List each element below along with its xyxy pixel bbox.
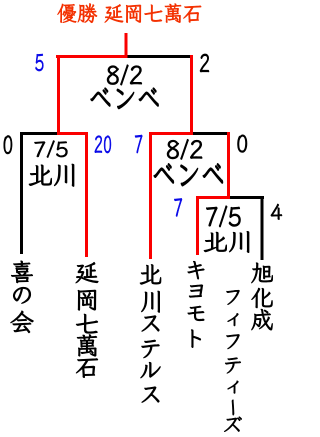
score: final left '5' (blue): [35, 54, 43, 71]
score: right semifinal left '7' (blue): [135, 135, 142, 153]
label: right semifinal date '8/2': [167, 139, 202, 159]
wire: champion riser from title to final (red): [125, 33, 128, 58]
wire: final right team vertical (red): [190, 55, 193, 135]
wire: quarterfinal horizontal left part (red): [196, 196, 230, 199]
team name: 旭化成 (first column): [251, 263, 272, 330]
label: final date '8/2': [107, 65, 142, 85]
wire: right semifinal horizontal left part (red): [149, 132, 193, 135]
label: quarterfinal date '7/5': [206, 206, 240, 227]
team name: 北川ステルス: [140, 264, 161, 402]
wire: quarterfinal right vertical to Asahi-Kasei Fifties (black): [261, 196, 264, 260]
wire: quarterfinal left vertical to Kiyomoto (red): [196, 196, 199, 255]
wire: right semifinal horizontal right part (black): [193, 132, 230, 135]
wire: right semifinal left vertical to Kitagawa Stealth (red): [149, 132, 152, 259]
label: champion title '優勝': [58, 4, 98, 23]
wire: left semifinal horizontal left part (black): [20, 132, 60, 135]
score: right semifinal right '0' (black): [238, 135, 248, 153]
score: final right '2' (black): [200, 54, 209, 72]
label: left semifinal venue '北川': [29, 164, 74, 187]
wire: final left team vertical (red): [57, 55, 60, 135]
score: quarterfinal left '7' (blue): [174, 198, 182, 216]
team name: フィフティーズ (second column): [224, 290, 242, 432]
team name: キヨモト: [188, 261, 205, 348]
label: final venue 'ベンベ': [91, 88, 159, 109]
wire: left semifinal left vertical to Ki-no-kai (black): [20, 132, 23, 254]
team name: 延岡七萬石 (champion): [76, 262, 99, 377]
wire: final horizontal right half (black): [128, 55, 194, 58]
team name: 喜の会 (Ki-no-kai): [11, 261, 34, 333]
wire: final horizontal left half (red): [56, 55, 128, 58]
score: left semifinal right '20' (blue): [95, 136, 111, 153]
wire: left semifinal right vertical to Nobeoka Shichimangoku (red): [85, 132, 88, 257]
wire: quarterfinal horizontal right part (black): [230, 196, 264, 199]
wire: left semifinal horizontal right part (red): [57, 132, 88, 135]
score: left semifinal left '0' (black): [4, 136, 12, 154]
score: quarterfinal right '4' (black): [271, 204, 282, 220]
label: quarterfinal venue '北川': [204, 231, 249, 252]
label: right semifinal venue 'ベンベ': [154, 164, 223, 186]
wire: connector right semifinal to quarterfinal (red): [227, 132, 230, 199]
label: left semifinal date '7/5': [34, 140, 67, 157]
label: champion team name '延岡七萬石': [105, 3, 202, 22]
